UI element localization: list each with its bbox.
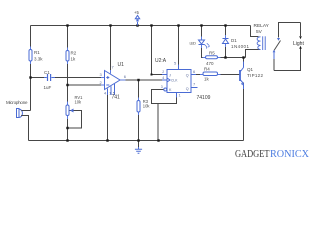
wire D1 branch from rail (225, 26, 227, 39)
junction J corner (151, 74, 153, 76)
junction ground-RV1 (66, 139, 68, 141)
junction rail-J branch (150, 24, 152, 26)
wire rail to U2 top pin (178, 26, 180, 65)
capacitor C1 (44, 74, 55, 81)
svg-text:R5: R5 (209, 51, 215, 56)
wire Q1 collector (243, 58, 245, 68)
wire D1 anode down to node (225, 44, 227, 58)
resistor R2 (66, 51, 69, 62)
wire left column R1 branch (21, 26, 31, 111)
wire top +5 rail (31, 25, 251, 27)
svg-text:+5: +5 (134, 10, 139, 15)
relay switch contact (274, 41, 281, 51)
relay coil RL1 (257, 36, 265, 50)
junction rail-U1 V+ (109, 24, 111, 26)
svg-text:1uF: 1uF (44, 85, 52, 90)
svg-text:RONICX: RONICX (270, 149, 310, 160)
junction ground-U1 pin4 (106, 139, 108, 141)
wire LED branch from rail (201, 26, 203, 41)
wire bottom ground rail (29, 140, 244, 142)
svg-text:10k: 10k (75, 100, 83, 105)
wire rail end to relay coil top (251, 26, 259, 37)
wire op-amp V+ pin7 to rail (110, 26, 112, 74)
svg-text:R4: R4 (204, 67, 210, 72)
wire microphone bottom to ground (21, 116, 29, 141)
svg-text:1N4001: 1N4001 (231, 44, 249, 49)
svg-text:2: 2 (162, 70, 164, 74)
wire Q1 emitter to ground rail (243, 83, 245, 141)
svg-text:CLK: CLK (171, 79, 178, 83)
svg-text:470: 470 (206, 61, 214, 66)
junction rail-R2 (66, 24, 68, 26)
wire C1 node to cap (31, 77, 47, 79)
wire op-amp output to R3 node (120, 79, 139, 81)
wire U2 K to bottom pin loop (152, 90, 177, 104)
svg-text:1k: 1k (204, 77, 210, 82)
pin stubs (blue component leads) (31, 35, 226, 119)
svg-text:U1: U1 (118, 62, 125, 68)
svg-text:GADGET: GADGET (235, 149, 270, 160)
junction rail-D1 (224, 24, 226, 26)
lamp Light (299, 36, 302, 39)
svg-text:Q: Q (186, 73, 189, 77)
svg-text:Light: Light (293, 41, 304, 47)
svg-text:U2:A: U2:A (155, 58, 167, 64)
svg-text:R2: R2 (71, 51, 77, 56)
svg-text:Microphone: Microphone (6, 100, 28, 105)
resistor R4 (203, 72, 218, 76)
potentiometer RV1 (66, 105, 69, 116)
svg-text:10k: 10k (143, 103, 151, 108)
flip-flop U2:A 74109 (162, 65, 198, 98)
wire lamp top lead (300, 23, 302, 37)
diode D1 1N4001 (223, 39, 229, 44)
junction ground-K loop (157, 139, 159, 141)
wire R2 branch (67, 26, 69, 106)
microphone (17, 109, 31, 118)
transistor Q1 TIP122 (240, 62, 244, 90)
wire C1 to op-amp pin3 (52, 77, 105, 79)
resistor R5 (206, 56, 218, 59)
junction D1-Q1 collector-relay (242, 56, 244, 58)
junction RV1 wiper tie (66, 127, 68, 129)
junction rail-LED (200, 24, 202, 26)
wire R5 to D1 node to collector node (218, 57, 246, 59)
svg-text:RELAY: RELAY (254, 23, 270, 29)
wire ground symbol stub (138, 141, 140, 148)
svg-text:3: 3 (161, 85, 163, 89)
wire LED cathode to R5 (202, 45, 206, 58)
junction ground-R3-earth (137, 139, 139, 141)
svg-text:J: J (169, 73, 171, 77)
wire RV1 bottom to ground rail (67, 116, 69, 141)
wire relay coil bottom lead (246, 50, 261, 58)
wire RV1 wiper loop (68, 111, 82, 129)
svg-text:D1: D1 (231, 38, 237, 43)
wire K loop to ground rail (157, 104, 159, 141)
svg-text:1k: 1k (71, 57, 77, 62)
wire lamp bottom lead (274, 48, 301, 71)
svg-text:TIP122: TIP122 (247, 73, 263, 78)
ground (135, 147, 142, 153)
svg-text:Q1: Q1 (247, 67, 254, 72)
svg-text:C1: C1 (44, 70, 50, 75)
svg-text:4: 4 (162, 76, 164, 80)
junction R5-D1 (224, 56, 226, 58)
resistor R1 (29, 50, 32, 62)
wire switch bottom contact lead (273, 51, 275, 71)
wire R3 bottom to ground (138, 80, 140, 141)
wire R4 to Q1 base (218, 74, 240, 76)
LED (199, 40, 210, 49)
wire R3 node to U2 CLK (139, 79, 163, 81)
wire node A to op-amp pin2 (68, 84, 105, 86)
wire U2 Q pin6 to R4 (196, 74, 203, 76)
wire switch top contact from light loop (279, 23, 301, 38)
junction U1 out-R3-CLK (137, 79, 139, 81)
junction node mic-R1-C1 (29, 76, 31, 78)
junction rail-U2 top pin (177, 24, 179, 26)
junction rail +5 stub (136, 24, 138, 26)
svg-text:R1: R1 (34, 50, 40, 55)
op-amp U1 (105, 71, 121, 96)
wire op-amp pin4 to ground (107, 95, 109, 141)
svg-text:3.3k: 3.3k (34, 57, 43, 62)
svg-text:Q: Q (186, 87, 189, 91)
wire +5 rail to U2 J pin (152, 26, 163, 75)
svg-text:5V: 5V (256, 29, 263, 35)
svg-text:LED: LED (190, 42, 197, 46)
junction node A R2-RV1-pin2 (66, 84, 68, 86)
power +5 symbol (135, 15, 139, 21)
svg-text:74109: 74109 (197, 95, 211, 101)
resistor R3 (137, 101, 140, 113)
